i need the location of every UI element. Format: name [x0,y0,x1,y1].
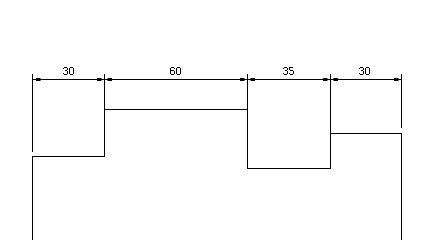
object edge: top of right 30 section [331,133,403,135]
object edge: left step horizontal [32,156,105,158]
dimension tick: left of E2 [97,78,102,81]
dimension text 30 (right) [359,67,370,75]
extension line E3 / object edge at x=247 [247,74,249,169]
dimension tick: left of E4 [323,78,328,81]
dimension text 30 (left) [63,67,74,75]
dimension tick: right of E1 [36,78,41,81]
dimension tick: right of E2 [108,78,113,81]
object edge: bottom of 35 section [247,168,331,170]
extension line E2 / object edge at x=104 [104,74,106,157]
object edge: top of 60 section [105,109,248,111]
dimension tick: left of E3 [240,78,245,81]
extension line E4 / object edge at x=330 [330,74,332,169]
dimension text 35 [283,67,294,75]
extension line E5 (right, with offset gap) [401,74,403,128]
object edge: left side lower segment [32,156,34,240]
dimension tick: left of E5 [394,78,399,81]
dimension text 60 [170,67,181,75]
dimension tick: right of E3 [251,78,256,81]
object edge: right side lower segment [401,133,403,240]
extension line E1 / left object edge upper segment [32,74,34,152]
dimension tick: right of E4 [334,78,339,81]
dimension line (chained, spans all four dimensions) [32,79,402,81]
